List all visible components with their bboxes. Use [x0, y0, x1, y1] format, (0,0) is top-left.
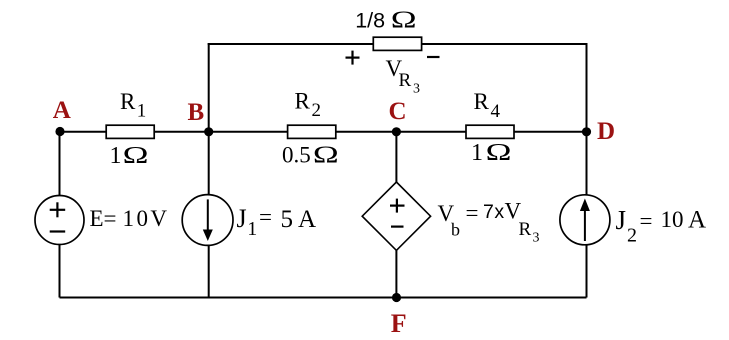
- svg-text:Ω: Ω: [486, 139, 512, 165]
- svg-text:F: F: [391, 309, 407, 338]
- node B: [204, 127, 213, 136]
- svg-text:B: B: [188, 99, 205, 126]
- voltage source E: [35, 196, 84, 245]
- svg-text:Ω: Ω: [391, 7, 417, 33]
- svg-text:A: A: [53, 97, 71, 124]
- wire C vertical: [395, 132, 397, 298]
- resistor R1: [106, 125, 154, 138]
- wire left branch A down: [59, 132, 61, 298]
- polarity minus (R3): [427, 56, 440, 58]
- wire main horizontal A-D: [60, 131, 587, 133]
- plus sign of Vb: [390, 199, 405, 213]
- svg-text:Ω: Ω: [313, 142, 339, 168]
- resistor R2: [288, 125, 336, 138]
- node D: [582, 127, 591, 136]
- minus sign of E: [50, 230, 65, 232]
- node A: [55, 127, 64, 136]
- svg-text:1/8: 1/8: [355, 9, 385, 33]
- minus sign of Vb: [391, 226, 404, 228]
- svg-text:E=10V: E=10V: [90, 206, 168, 231]
- wire B vertical: [208, 43, 210, 298]
- wire top B-D: [208, 43, 588, 45]
- arrow of J2 (up): [584, 211, 586, 242]
- wire bottom F: [60, 297, 587, 299]
- wire D vertical: [586, 43, 588, 298]
- svg-text:1: 1: [471, 140, 483, 166]
- current source J2: [560, 195, 610, 245]
- resistor R3 (1/8 ohm): [373, 37, 421, 50]
- plus sign of E: [50, 202, 65, 217]
- svg-text:0.5: 0.5: [282, 143, 311, 168]
- arrow of J1 (down): [207, 199, 209, 230]
- svg-text:C: C: [389, 98, 407, 125]
- node F: [392, 293, 401, 302]
- current source J1: [182, 195, 233, 246]
- svg-text:D: D: [597, 118, 615, 145]
- resistor R4: [466, 125, 514, 138]
- node C: [392, 127, 401, 136]
- svg-text:1: 1: [110, 143, 122, 169]
- svg-text:Ω: Ω: [123, 142, 149, 168]
- polarity plus (R3): [346, 51, 360, 65]
- dependent source Vb (diamond): [362, 182, 430, 250]
